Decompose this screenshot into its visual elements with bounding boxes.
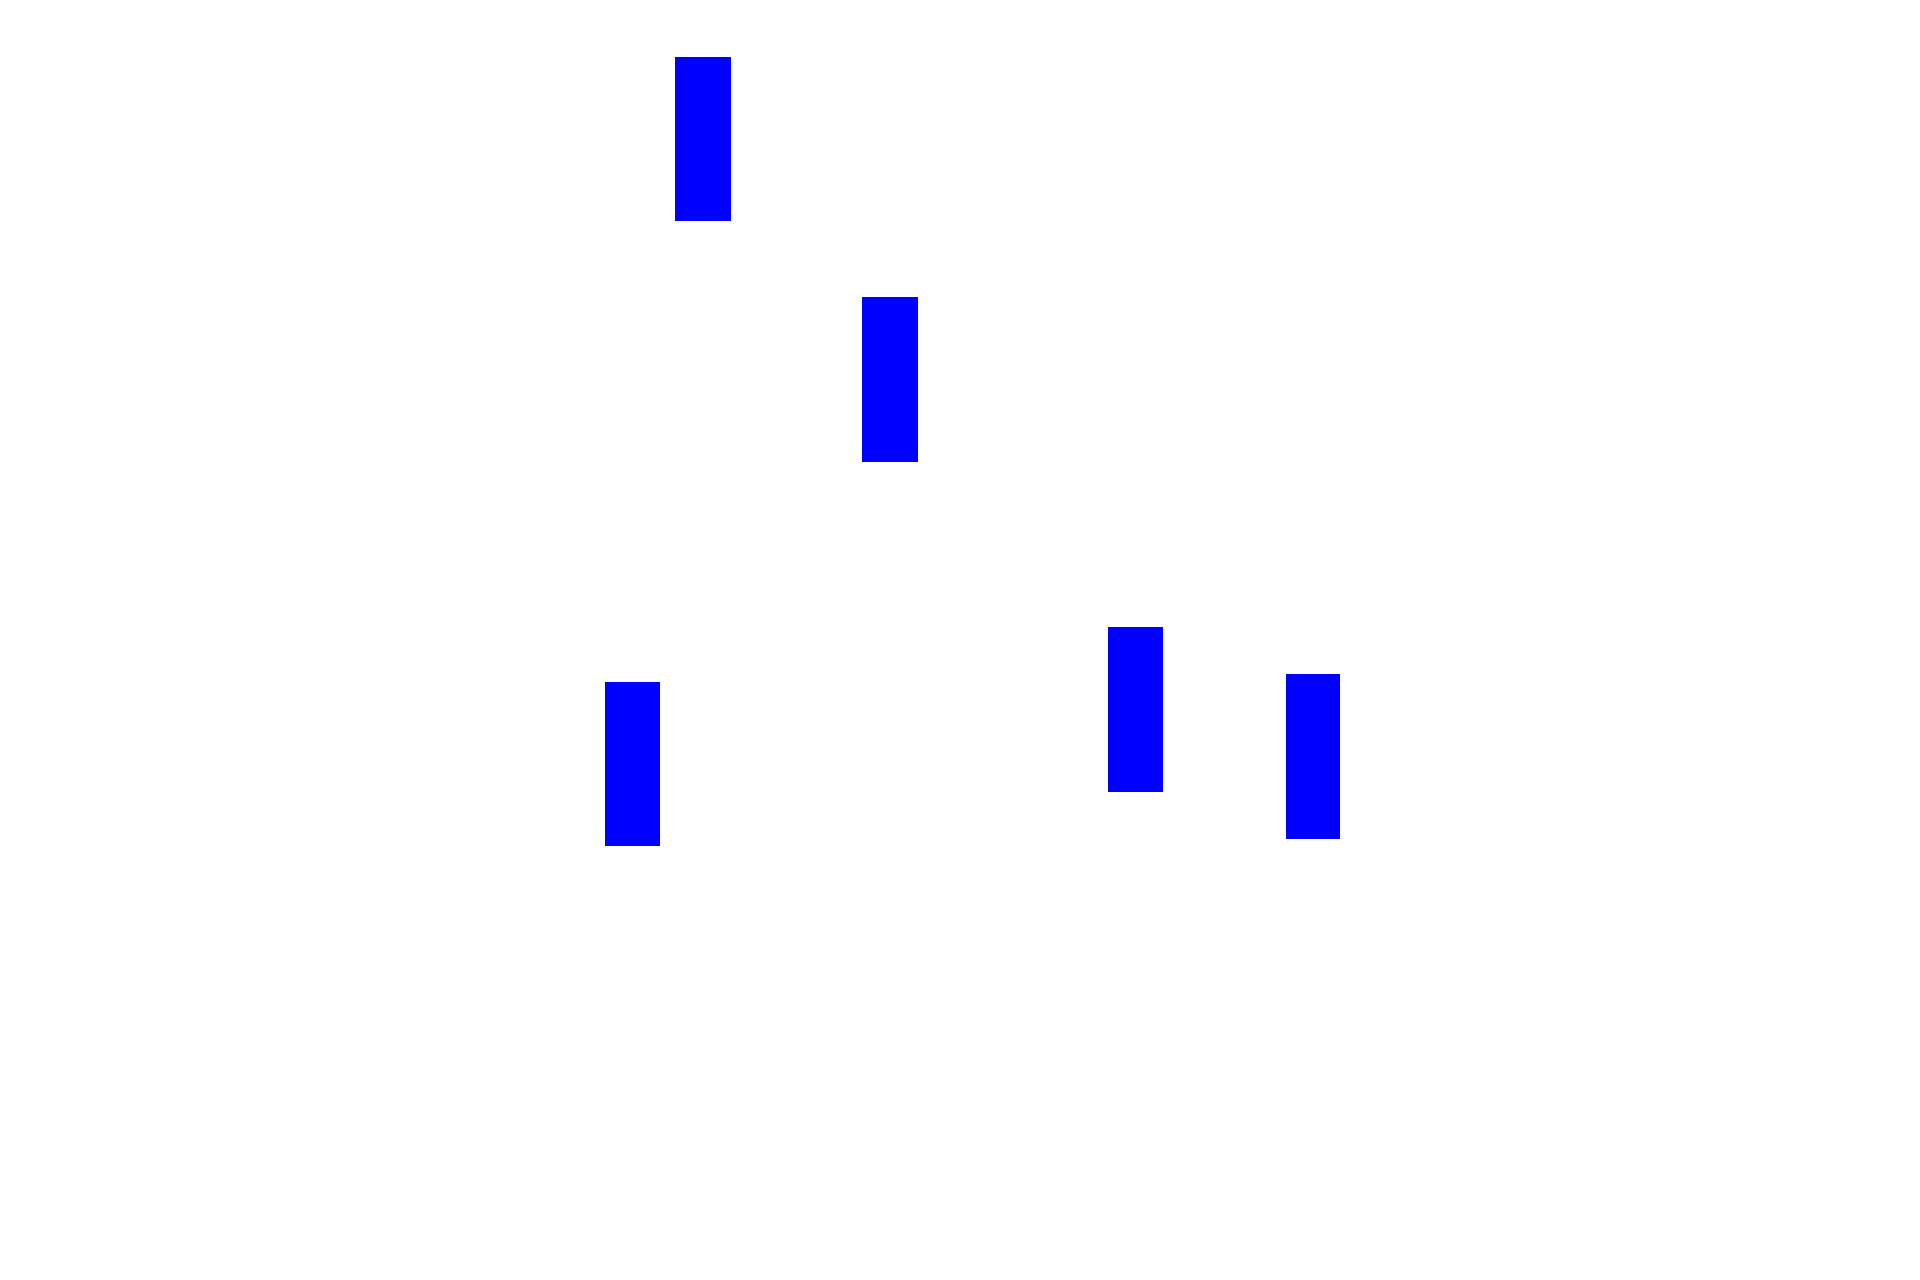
blue tile 1 (top) [675,57,731,221]
blue tile 3 (middle right) [1108,627,1163,792]
blue tile 5 (lower right) [1286,674,1340,839]
blue tile 2 (upper middle) [862,297,918,462]
blue tile 4 (lower left) [605,682,660,846]
